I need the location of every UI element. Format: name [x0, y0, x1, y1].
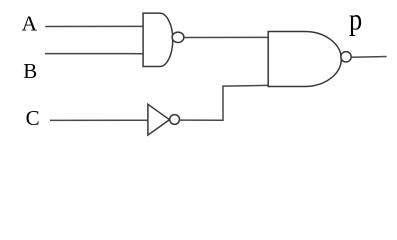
nand gate U2 body [268, 32, 341, 87]
nand gate U2 output bubble [341, 52, 351, 62]
wire inverter output horizontal [180, 119, 224, 121]
wire A input [45, 25, 142, 27]
wire C input [50, 119, 148, 121]
wire p output [351, 56, 386, 59]
svg-text:B: B [23, 59, 37, 83]
inverter U3 triangle [148, 104, 170, 135]
wire B input [45, 53, 143, 55]
inverter U3 output bubble [170, 115, 180, 125]
wire U1 output to U2 upper input [184, 36, 268, 38]
wire riser to U2 lower input [222, 84, 267, 87]
svg-text:A: A [22, 12, 38, 36]
nand gate U1 body [143, 13, 173, 66]
svg-text:C: C [26, 106, 40, 130]
nand gate U1 output bubble [172, 32, 184, 42]
svg-text:p: p [349, 3, 362, 37]
wire riser vertical [222, 86, 224, 121]
